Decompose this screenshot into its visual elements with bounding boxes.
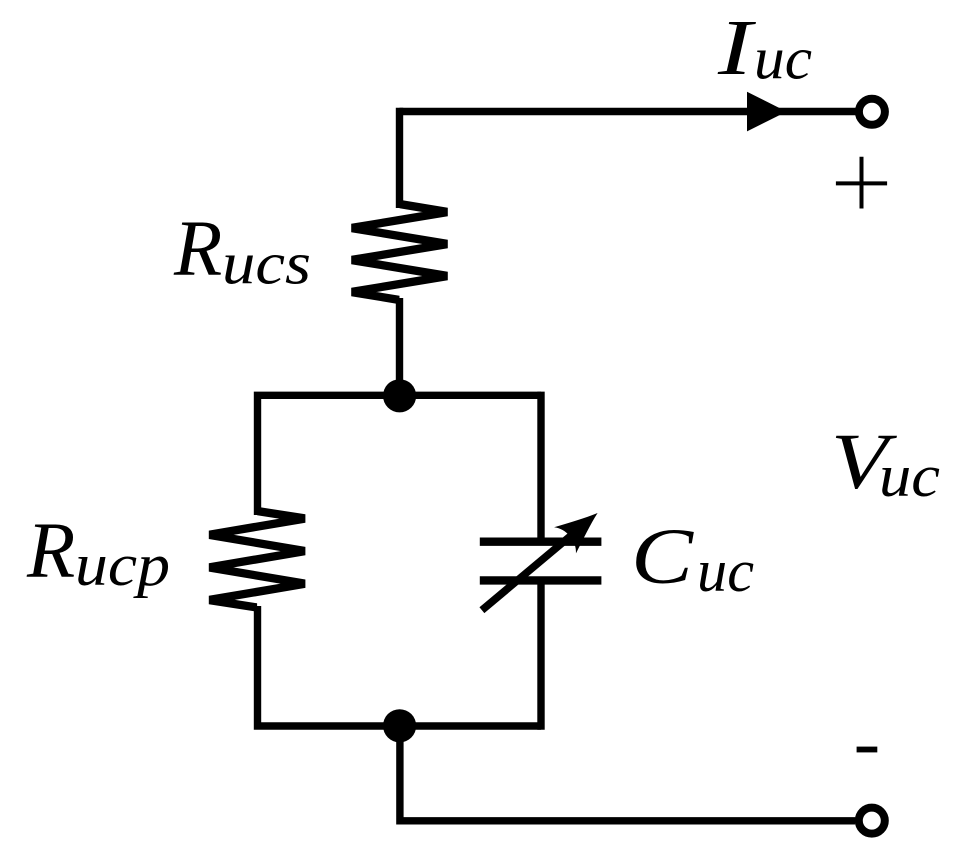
svg-text:Rucs: Rucs — [173, 206, 311, 297]
svg-text:Cuc: Cuc — [631, 514, 754, 604]
capacitor Cuc top plate — [480, 538, 602, 546]
plus sign — [836, 157, 887, 209]
variable-capacitor arrowhead — [554, 500, 608, 553]
terminal top-right — [859, 99, 885, 125]
wire right branch top (rail to capacitor top plate) — [537, 392, 544, 538]
resistor Rucs — [351, 200, 448, 304]
wire parallel-box top rail and left branch top — [258, 395, 542, 515]
wire capacitor bottom plate to bottom rail — [537, 584, 544, 730]
svg-text:Vuc: Vuc — [831, 419, 940, 509]
capacitor Cuc bottom plate — [480, 576, 602, 584]
svg-text:Iuc: Iuc — [717, 5, 812, 92]
wire node B down and bottom horizontal to terminal — [400, 726, 855, 821]
svg-text:Rucp: Rucp — [26, 508, 170, 598]
node A (top junction dot) — [383, 379, 416, 412]
minus sign — [857, 747, 878, 753]
wire from top rail down to Rucs — [396, 108, 403, 208]
wire Rucp bottom to bottom rail, bottom rail to node B — [258, 606, 542, 726]
resistor Rucp — [209, 507, 306, 612]
wire top horizontal — [400, 108, 857, 115]
variable-capacitor arrow shaft — [482, 523, 586, 610]
wire Rucs to node A — [396, 298, 403, 396]
current arrow Iuc — [747, 92, 787, 132]
terminal bottom-right — [859, 808, 885, 834]
node B (bottom junction dot) — [383, 709, 416, 742]
